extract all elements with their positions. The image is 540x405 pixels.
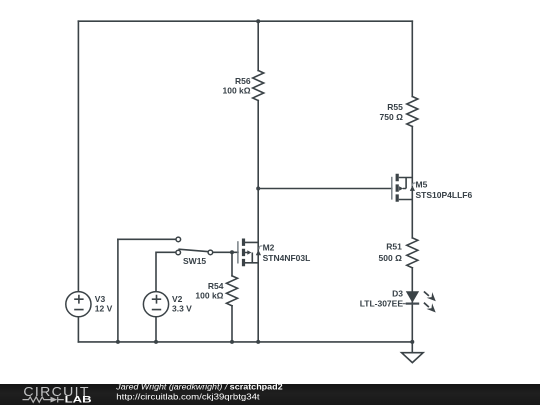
svg-text:http://circuitlab.com/ckj39qrb: http://circuitlab.com/ckj39qrbtg34t [116,391,260,401]
wire ground stub [411,342,413,353]
resistor R56 [253,71,264,101]
wire R55 to M5 [411,127,413,238]
ground [402,353,424,363]
svg-text:scratchpad2: scratchpad2 [230,382,283,392]
svg-text:LAB: LAB [65,395,92,405]
wire switch upper throw [118,238,176,240]
svg-text:R51: R51 [386,241,402,251]
svg-text:M5: M5 [416,179,428,189]
junction V2 ground [154,340,158,344]
voltage source V2 [143,292,168,317]
footer logo doodle [23,397,64,403]
svg-text:12 V: 12 V [95,303,113,313]
wire R51 to LED and ground rail [411,268,413,342]
wire R56 to M2 drain [257,101,259,342]
wire switch pole to M2 gate [212,251,238,253]
svg-text:LTL-307EE: LTL-307EE [360,299,404,309]
transistor M2 [238,239,263,267]
wire node gate M5 [258,188,392,190]
svg-text:STN4NF03L: STN4NF03L [263,253,311,263]
wire V2 to switch lower throw [156,252,176,291]
svg-text:D3: D3 [392,289,403,299]
wire V3 bottom lead [77,317,79,342]
wire V2 bottom lead [155,317,157,342]
resistor R51 [407,238,418,268]
wire bottom rail [78,341,412,343]
voltage source V3 [66,292,91,317]
diode D3 LED [403,291,436,312]
junction R54 ground [230,340,234,344]
svg-text:SW15: SW15 [183,256,206,266]
svg-text:100 kΩ: 100 kΩ [195,291,223,301]
svg-text:R54: R54 [208,281,224,291]
junction upper throw ground [116,340,120,344]
resistor R54 [227,276,238,306]
junction R54 gate tap [230,250,234,254]
wire right R55 top lead [411,21,413,96]
svg-text:R56: R56 [235,76,251,86]
wire R54 bottom lead [231,306,233,342]
svg-text:750 Ω: 750 Ω [380,112,404,122]
transistor M5 [392,174,416,202]
resistor R55 [407,97,418,127]
switch SW15 [176,237,213,255]
wire top rail [78,20,412,22]
wire R56 top lead [257,21,259,70]
junction top R56 [256,19,260,23]
wire R54 top lead [231,252,233,275]
wire left V3 top lead [77,21,79,291]
svg-text:Jared Wright (jaredkwright) /: Jared Wright (jaredkwright) / [115,382,229,392]
junction gate M5 tap [256,187,260,191]
svg-text:STS10P4LLF6: STS10P4LLF6 [416,190,473,200]
junction LED ground [410,340,414,344]
wire upper throw to ground rail [117,239,119,342]
svg-text:100 kΩ: 100 kΩ [223,86,251,96]
svg-text:R55: R55 [387,102,403,112]
svg-text:3.3 V: 3.3 V [172,303,192,313]
svg-text:M2: M2 [263,242,275,252]
junction M2 source ground [256,340,260,344]
svg-text:500 Ω: 500 Ω [379,253,403,263]
